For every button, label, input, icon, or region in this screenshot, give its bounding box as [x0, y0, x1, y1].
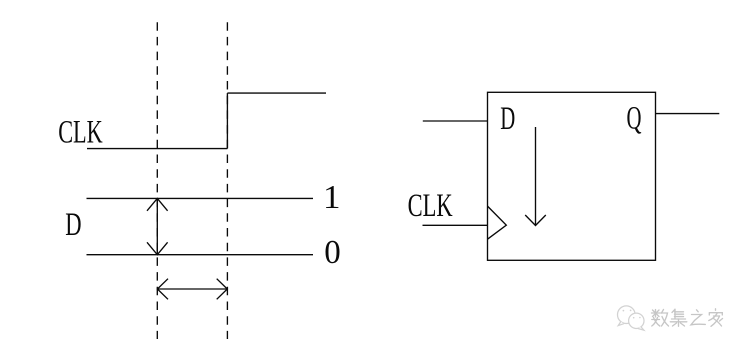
char ji — [670, 309, 687, 326]
vertical double arrow (D transition window) — [147, 198, 168, 254]
wire D high level (logic 1) — [87, 197, 314, 199]
watermark logo (chat bubbles) — [618, 306, 645, 330]
dashed vertical line t2 (clock edge marker) — [226, 22, 228, 339]
wire CLK rising edge — [226, 93, 228, 149]
dashed vertical line t1 (setup time marker) — [156, 22, 158, 339]
wire D low level (logic 0) — [87, 254, 314, 256]
horizontal double arrow (setup time interval) — [157, 279, 227, 300]
wire CLK low level — [87, 148, 227, 150]
svg-text:CLK: CLK — [58, 115, 103, 151]
svg-text:D: D — [65, 207, 81, 243]
wire CLK input — [423, 224, 488, 226]
char zhi — [691, 310, 705, 325]
watermark text 数集之家 — [652, 309, 723, 327]
wire D input — [423, 120, 488, 122]
flip-flop U1 body — [488, 92, 656, 260]
svg-text:D: D — [500, 101, 515, 137]
clock edge triangle — [488, 206, 507, 239]
wire CLK high level — [227, 92, 326, 94]
svg-text:CLK: CLK — [408, 188, 453, 224]
svg-text:0: 0 — [324, 234, 341, 271]
char shu — [652, 310, 669, 327]
svg-text:1: 1 — [323, 179, 341, 216]
char jia — [709, 309, 723, 327]
falling edge arrow inside flip-flop — [525, 127, 546, 226]
svg-text:Q: Q — [627, 100, 642, 136]
wire Q output — [656, 113, 720, 115]
